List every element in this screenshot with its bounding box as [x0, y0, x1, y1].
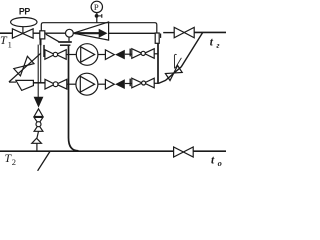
wire row2 discharge	[98, 83, 106, 85]
valve V1 on T1 line	[12, 29, 22, 38]
svg-text:PP: PP	[19, 6, 30, 16]
wire row2 suction	[67, 83, 76, 85]
wire T1 to fitting	[33, 32, 40, 34]
wire T1 supply main left segment	[0, 32, 12, 34]
valve V6 row2 discharge	[132, 78, 142, 88]
gauge tap tick	[99, 15, 102, 17]
expansion tank PP (ellipse)	[11, 18, 37, 27]
wire left line A (to drain)	[37, 45, 39, 97]
elevator U1 (cone)	[73, 22, 108, 40]
wire row2 to valve V6	[125, 83, 132, 85]
flange bar row1 right	[129, 49, 131, 57]
svg-text:г: г	[216, 40, 219, 50]
fitting F1 after valve V1	[40, 31, 45, 39]
wire gauge stem	[96, 13, 98, 23]
wire tank stem	[22, 27, 24, 34]
wire scoop to valve V5	[33, 82, 45, 84]
svg-text:о: о	[218, 159, 222, 168]
wire to valve V2	[163, 32, 174, 34]
wire discharge manifold right	[157, 43, 159, 84]
valve V8 on drain	[34, 117, 43, 124]
check valve row2 (filled)	[115, 79, 125, 89]
flange bar row2 right	[129, 79, 131, 87]
wire elevator outlet	[109, 32, 156, 34]
wire left line B (to row 2)	[40, 45, 42, 83]
wire diagonal to heating supply	[159, 33, 203, 84]
check valve on drain (filled down)	[34, 97, 44, 108]
svg-text:P: P	[94, 2, 99, 12]
flange bar row1 left	[43, 45, 45, 57]
valve V2 on heating supply line	[174, 27, 184, 37]
wire upper bypass	[41, 23, 157, 34]
wire drain stem to T2	[36, 143, 38, 151]
elbow triangle above T2	[32, 138, 42, 143]
wire diagonal from T1 to union	[46, 34, 59, 42]
gauge P	[91, 1, 102, 12]
wire row1 discharge	[98, 54, 106, 56]
fitting F2 at elevator outlet	[155, 33, 159, 43]
valve V9 on t_o line	[174, 147, 184, 157]
wire T2 drain tail	[38, 151, 50, 170]
valve V4 row1 discharge	[132, 49, 142, 59]
regulator stem squiggle	[174, 54, 181, 68]
wire t_o out	[193, 150, 226, 152]
pump P1	[76, 44, 98, 66]
wire heating supply out	[194, 31, 226, 33]
junction dot on gauge stem	[95, 14, 99, 18]
wire row1 to valve V4	[125, 53, 132, 55]
tick flange right of fitting F2	[160, 34, 162, 38]
wire bypass to scoop	[9, 81, 16, 83]
wire stub below fitting F1	[40, 39, 42, 45]
cone row1	[105, 50, 114, 60]
check valve row1 (filled)	[115, 50, 125, 60]
check valve lower half (open)	[34, 109, 43, 117]
regulator valve on diagonal	[165, 73, 173, 81]
wire T1 to elevator circle	[45, 32, 66, 34]
wire row1 to manifold	[154, 53, 158, 55]
union flange bars under elevator circle	[68, 37, 70, 41]
scoop fitting row2 left	[16, 80, 34, 90]
wire drain lower	[37, 131, 39, 138]
svg-text:1: 1	[8, 40, 12, 50]
wire pump suction manifold	[69, 46, 79, 151]
valve V5 row2 suction	[45, 79, 55, 89]
elevator arrow	[75, 32, 100, 34]
wire row1 suction	[66, 54, 76, 56]
pump P2	[76, 73, 98, 95]
cone row2	[105, 80, 114, 90]
elevator inlet circle	[66, 29, 74, 37]
wire T2 return main	[0, 150, 174, 152]
valve V7 on bypass diagonal	[24, 56, 34, 66]
svg-text:2: 2	[12, 157, 16, 167]
wire row2 to manifold	[154, 82, 158, 84]
valve V3 row1 suction	[45, 50, 55, 60]
wire left bypass diagonal	[9, 53, 41, 82]
